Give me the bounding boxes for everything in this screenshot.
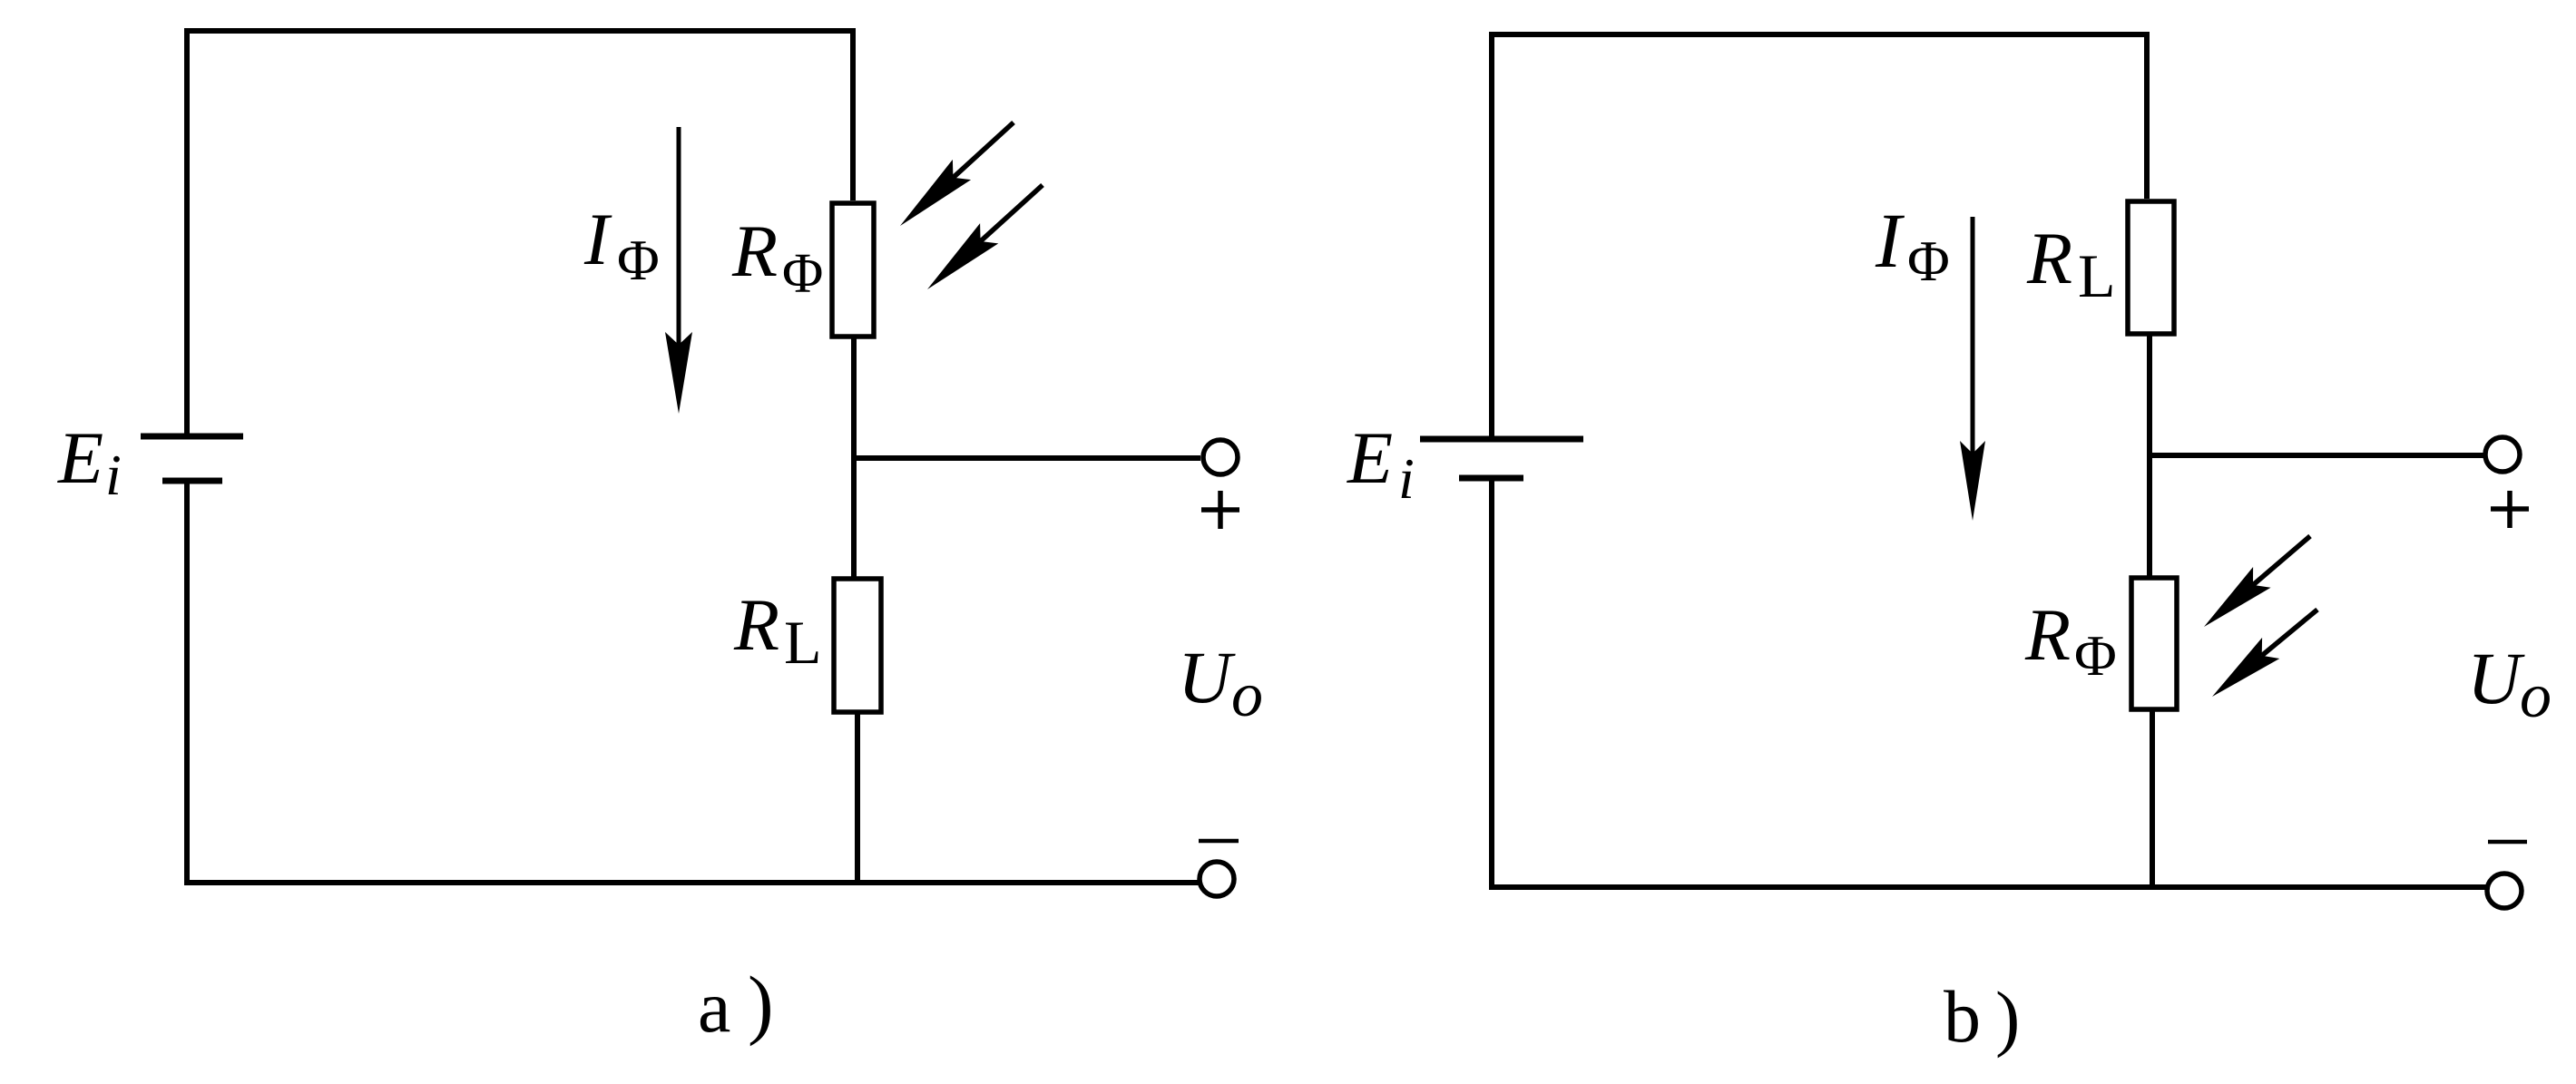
svg-text:Φ: Φ xyxy=(782,243,823,305)
svg-text:L: L xyxy=(784,608,822,677)
wire: circuit a top horizontal xyxy=(187,28,853,34)
wire: circuit a left vertical upper (to battery) xyxy=(184,28,190,434)
svg-text:E: E xyxy=(57,416,103,499)
plus sign (circuit b) xyxy=(2491,491,2529,528)
wire: circuit b left vertical lower (battery to bottom) xyxy=(1489,478,1494,890)
light arrow 1 (circuit a) xyxy=(953,122,1014,178)
wire: circuit b R-phi to bottom wire xyxy=(2150,709,2155,887)
resistor R-phi (circuit b) body xyxy=(2131,578,2177,709)
svg-text:R: R xyxy=(2024,593,2071,676)
svg-text:U: U xyxy=(2467,637,2525,719)
current arrow I-phi (circuit b) xyxy=(1971,217,1975,455)
wire: circuit b top horizontal xyxy=(1492,32,2147,37)
wire: circuit a between R-phi and R-L xyxy=(851,337,857,579)
svg-text:E: E xyxy=(1347,416,1393,499)
minus sign (circuit b) xyxy=(2488,840,2527,845)
wire: circuit b node to + terminal xyxy=(2150,453,2483,458)
terminal - (circuit a) xyxy=(1200,862,1234,896)
battery E (circuit b) short plate xyxy=(1459,475,1523,482)
svg-text:i: i xyxy=(1398,446,1415,511)
battery E (circuit a) short plate xyxy=(162,478,222,484)
svg-text:o: o xyxy=(2520,661,2552,731)
svg-text:I: I xyxy=(583,198,612,280)
svg-text:Φ: Φ xyxy=(617,228,660,292)
svg-text:Φ: Φ xyxy=(2074,623,2117,688)
wire: circuit b right vertical top (to R-L) xyxy=(2144,32,2150,199)
wire: circuit a R-L to bottom wire xyxy=(855,712,860,883)
svg-text:R: R xyxy=(2026,217,2072,299)
svg-text:R: R xyxy=(733,583,779,666)
battery E (circuit a) long plate xyxy=(141,434,243,440)
light arrow 2 (circuit a) xyxy=(981,185,1043,241)
battery E (circuit b) long plate xyxy=(1420,436,1583,443)
svg-text:b: b xyxy=(1944,975,1981,1058)
svg-text:): ) xyxy=(748,960,774,1047)
current arrow I-phi (circuit a) xyxy=(677,127,681,347)
wire: circuit a bottom horizontal xyxy=(184,880,1200,885)
resistor R-L (circuit b) body xyxy=(2128,201,2174,334)
light arrow 2 (circuit b) xyxy=(2262,610,2317,656)
wire: circuit b left vertical upper (to battery) xyxy=(1489,32,1494,436)
svg-text:R: R xyxy=(731,210,778,292)
terminal + (circuit b) xyxy=(2485,437,2520,472)
svg-text:o: o xyxy=(1231,660,1263,730)
terminal - (circuit b) xyxy=(2487,874,2522,908)
svg-text:a: a xyxy=(698,965,730,1048)
svg-text:I: I xyxy=(1875,197,1905,284)
wire: circuit b between R-L and node xyxy=(2147,334,2152,578)
svg-text:L: L xyxy=(2078,241,2116,310)
wire: circuit b bottom horizontal xyxy=(1489,884,2486,890)
wire: circuit a right vertical top (to R-phi) xyxy=(850,28,856,200)
terminal + (circuit a) xyxy=(1203,440,1238,474)
svg-text:): ) xyxy=(1995,976,2020,1059)
svg-text:U: U xyxy=(1178,636,1236,718)
wire: circuit a left vertical lower (battery to bottom) xyxy=(184,481,190,885)
minus sign (circuit a) xyxy=(1199,839,1239,844)
resistor R-L (circuit a) body xyxy=(834,579,881,712)
wire: circuit a node to + terminal xyxy=(854,455,1200,461)
svg-text:Φ: Φ xyxy=(1907,229,1950,293)
resistor R-phi (circuit a) body xyxy=(832,203,874,337)
light arrow 1 (circuit b) xyxy=(2253,536,2310,585)
plus sign (circuit a) xyxy=(1201,491,1239,529)
svg-text:i: i xyxy=(105,443,122,507)
